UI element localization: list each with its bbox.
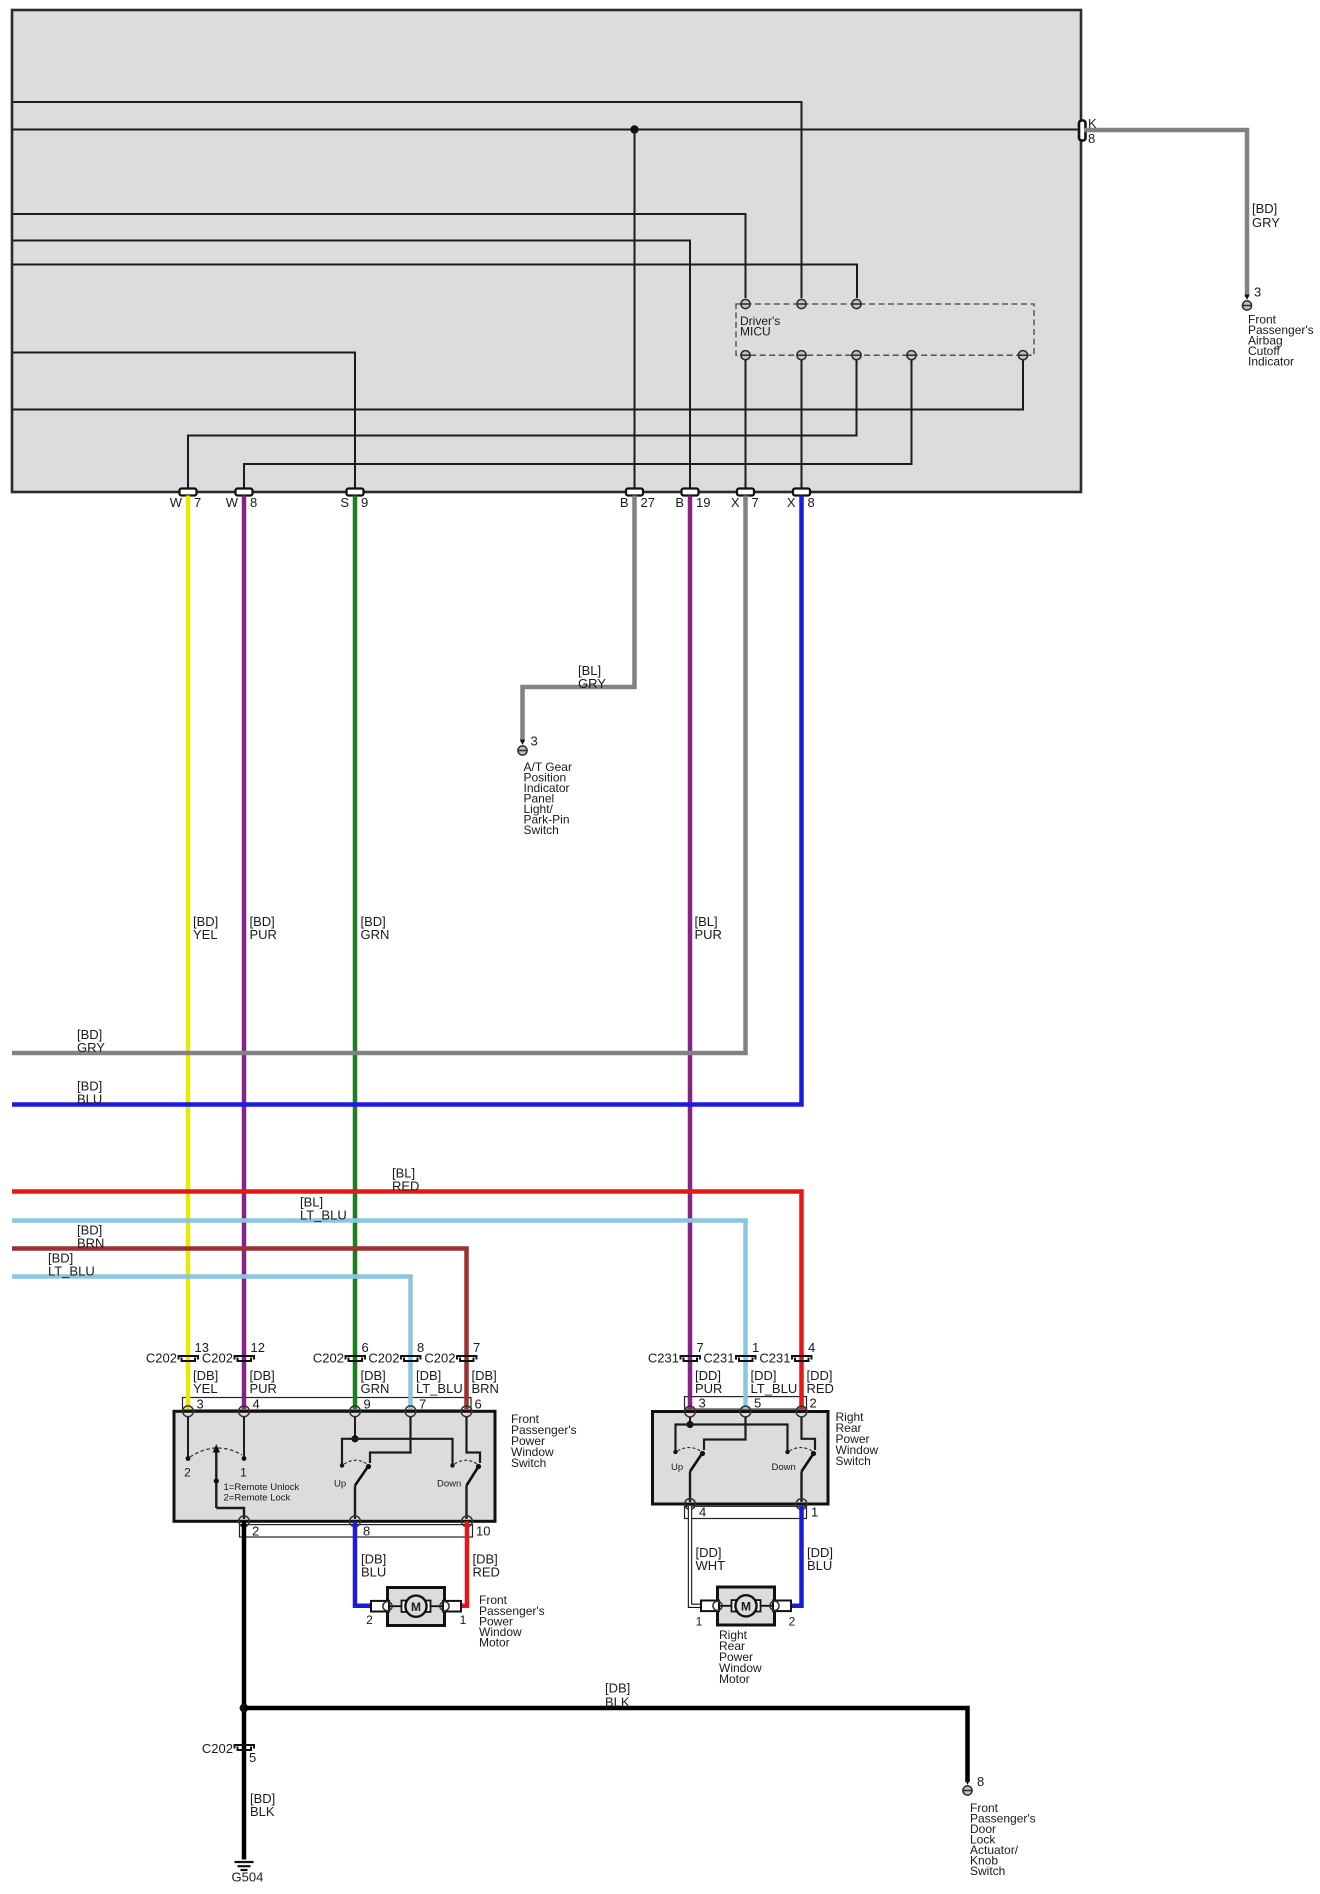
connector W7 xyxy=(180,489,197,496)
svg-text:C202: C202 xyxy=(313,1351,344,1366)
svg-text:4: 4 xyxy=(808,1340,815,1355)
FP switch top pin strip xyxy=(183,1398,472,1411)
svg-text:8: 8 xyxy=(363,1524,370,1539)
svg-text:3: 3 xyxy=(1254,285,1261,300)
RR switch bottom pins 4 1 xyxy=(685,1499,696,1510)
svg-text:C231: C231 xyxy=(648,1351,679,1366)
svg-text:5: 5 xyxy=(754,1396,761,1411)
svg-text:W: W xyxy=(170,495,183,510)
svg-text:2: 2 xyxy=(366,1613,373,1627)
connector C202 pin 5 xyxy=(235,1745,255,1750)
svg-text:9: 9 xyxy=(361,495,368,510)
terminal 8 door lock actuator xyxy=(963,1786,972,1795)
svg-text:1: 1 xyxy=(460,1613,467,1627)
svg-text:GRN: GRN xyxy=(361,927,390,942)
svg-text:X: X xyxy=(731,495,740,510)
svg-text:GRN: GRN xyxy=(361,1381,390,1396)
svg-text:10: 10 xyxy=(476,1524,490,1539)
FP remote lock arm with arrow xyxy=(215,1451,217,1508)
svg-text:1: 1 xyxy=(811,1505,818,1520)
wire [DB] RED to FP motor xyxy=(455,1521,467,1606)
svg-text:C202: C202 xyxy=(146,1351,177,1366)
connector B19 xyxy=(682,489,699,496)
svg-text:8: 8 xyxy=(1088,131,1095,146)
svg-text:GRY: GRY xyxy=(1252,215,1280,230)
svg-text:[BD]: [BD] xyxy=(1252,201,1277,216)
connector W8 xyxy=(236,489,253,496)
FP switch bottom pin strip xyxy=(240,1525,473,1537)
svg-text:PUR: PUR xyxy=(695,1381,722,1396)
svg-text:MICU: MICU xyxy=(740,325,771,339)
svg-text:4: 4 xyxy=(253,1397,260,1412)
svg-text:7: 7 xyxy=(194,495,201,510)
svg-text:WHT: WHT xyxy=(696,1558,726,1573)
FP internal bus to fixed contacts xyxy=(342,1439,453,1465)
svg-text:RED: RED xyxy=(392,1179,419,1194)
svg-text:Motor: Motor xyxy=(479,1636,510,1650)
wire bus y=352 to S9 xyxy=(13,353,355,490)
connector X7 xyxy=(737,489,754,496)
wire [BL] LT_BLU horizontal xyxy=(12,1221,746,1410)
svg-text:GRY: GRY xyxy=(77,1040,105,1055)
svg-text:Switch: Switch xyxy=(970,1864,1005,1878)
svg-text:9: 9 xyxy=(364,1397,371,1412)
svg-text:2: 2 xyxy=(810,1396,817,1411)
connector X8 xyxy=(793,489,810,496)
svg-text:B: B xyxy=(620,495,629,510)
svg-text:M: M xyxy=(741,1600,751,1614)
svg-text:1: 1 xyxy=(240,1466,247,1480)
MICU bottom terminals xyxy=(741,351,750,360)
wire MICU bottom pin 5 to bus y=409 xyxy=(13,360,1023,410)
RR switch top pins 3 5 2 xyxy=(685,1406,696,1417)
FP switch body xyxy=(174,1411,495,1521)
svg-text:BLU: BLU xyxy=(77,1092,102,1107)
RR switch top pin strip xyxy=(685,1397,807,1410)
svg-text:PUR: PUR xyxy=(250,1381,277,1396)
svg-text:LT_BLU: LT_BLU xyxy=(300,1208,347,1223)
RR internal bus to fixed contacts xyxy=(676,1425,788,1452)
svg-text:RED: RED xyxy=(473,1565,500,1580)
svg-text:BLK: BLK xyxy=(605,1695,630,1710)
svg-text:3: 3 xyxy=(699,1396,706,1411)
svg-text:Down: Down xyxy=(437,1479,461,1490)
connector C231 pin 7 xyxy=(681,1356,701,1361)
svg-text:19: 19 xyxy=(696,495,710,510)
wire [BD] BRN horizontal xyxy=(12,1249,467,1410)
driver's door multiplex control unit box xyxy=(12,10,1081,492)
svg-text:C202: C202 xyxy=(202,1351,233,1366)
wire MICU bottom pin 2 to X8 xyxy=(801,360,803,489)
wire B27 vertical xyxy=(634,130,636,490)
wire [BD] YEL xyxy=(186,496,191,1410)
svg-text:BLU: BLU xyxy=(361,1565,386,1580)
RR pin3 leg and junction dot xyxy=(689,1417,691,1425)
FP remote lock section: pin4 leg xyxy=(243,1417,245,1457)
FP Up switch arm xyxy=(355,1467,368,1486)
FP pin6 leg to Down contact xyxy=(467,1417,481,1463)
wire [BD] PUR xyxy=(242,496,247,1410)
RR switch body xyxy=(653,1412,829,1505)
ground G504 xyxy=(235,1862,254,1870)
wire MICU bottom pin 3 to W7 xyxy=(188,360,857,489)
svg-text:LT_BLU: LT_BLU xyxy=(751,1381,798,1396)
connector C202 pin 13 xyxy=(179,1356,199,1361)
svg-text:5: 5 xyxy=(249,1750,256,1765)
svg-text:C202: C202 xyxy=(368,1351,399,1366)
connector K8 at box right edge xyxy=(1079,121,1086,141)
svg-text:[DB]: [DB] xyxy=(605,1681,630,1696)
svg-text:Up: Up xyxy=(671,1462,683,1473)
svg-text:PUR: PUR xyxy=(695,927,722,942)
wire [DD] BLU to RR motor xyxy=(788,1506,802,1606)
wire [BL] PUR xyxy=(688,496,693,1410)
RR Down dashed arc xyxy=(790,1448,813,1452)
svg-text:X: X xyxy=(787,495,796,510)
svg-text:Switch: Switch xyxy=(524,823,559,837)
wire bus y=264 to MICU top pin 3 xyxy=(13,265,857,299)
FP pin7 leg to Up contact xyxy=(370,1417,411,1463)
wire [DB] BLU to FP motor xyxy=(355,1521,375,1606)
svg-text:3: 3 xyxy=(531,734,538,749)
svg-text:Down: Down xyxy=(772,1462,796,1473)
terminal 3 airbag indicator xyxy=(1242,301,1251,310)
wire bus y=214 to MICU top pin 1 xyxy=(13,214,746,298)
svg-text:7: 7 xyxy=(752,495,759,510)
wire bus y=102 to MICU top pin 2 xyxy=(13,102,802,298)
svg-text:C202: C202 xyxy=(424,1351,455,1366)
svg-text:Switch: Switch xyxy=(511,1456,546,1470)
terminal 3 A/T gear position xyxy=(518,746,527,755)
svg-text:BLU: BLU xyxy=(807,1558,832,1573)
RR Up switch arm xyxy=(690,1454,702,1472)
wire [BL] RED horizontal xyxy=(12,1192,802,1410)
svg-text:BRN: BRN xyxy=(77,1236,104,1251)
junction dot B27 branch xyxy=(630,125,638,133)
svg-text:27: 27 xyxy=(641,495,655,510)
svg-text:7: 7 xyxy=(473,1340,480,1355)
wire [BD] GRN xyxy=(353,496,358,1410)
wire [BD] BLU horizontal xyxy=(12,496,802,1105)
svg-text:2: 2 xyxy=(252,1524,259,1539)
wire [BD] GRY horizontal xyxy=(12,496,746,1054)
svg-text:C231: C231 xyxy=(703,1351,734,1366)
svg-text:2: 2 xyxy=(789,1615,796,1629)
svg-text:W: W xyxy=(226,495,239,510)
wire [BL] GRY to A/T gear position panel light xyxy=(523,496,635,743)
svg-text:C231: C231 xyxy=(759,1351,790,1366)
svg-text:8: 8 xyxy=(808,495,815,510)
svg-text:Motor: Motor xyxy=(719,1672,750,1686)
svg-text:S: S xyxy=(340,495,349,510)
junction dot ground bus xyxy=(240,1704,249,1713)
RR switch bottom pin strip xyxy=(685,1506,807,1518)
connector C231 pin 1 xyxy=(736,1356,756,1361)
svg-text:LT_BLU: LT_BLU xyxy=(416,1381,463,1396)
svg-text:BRN: BRN xyxy=(472,1381,499,1396)
connector C202 pin 6 xyxy=(346,1356,366,1361)
svg-text:4: 4 xyxy=(699,1505,706,1520)
svg-text:12: 12 xyxy=(251,1340,265,1355)
svg-text:6: 6 xyxy=(475,1397,482,1412)
FP Down dashed arc xyxy=(455,1460,478,1464)
svg-text:8: 8 xyxy=(977,1774,984,1789)
svg-text:8: 8 xyxy=(417,1340,424,1355)
connector C231 pin 4 xyxy=(792,1356,812,1361)
MICU top terminals xyxy=(741,299,750,308)
svg-text:YEL: YEL xyxy=(193,1381,218,1396)
svg-text:YEL: YEL xyxy=(193,927,218,942)
svg-text:1=Remote Unlock: 1=Remote Unlock xyxy=(224,1482,300,1493)
Driver's MICU dashed box xyxy=(736,304,1034,355)
svg-text:PUR: PUR xyxy=(250,927,277,942)
wire [DD] WHT to RR motor xyxy=(690,1506,705,1606)
wire [DB] BLK to door lock actuator xyxy=(244,1708,968,1782)
svg-text:BLK: BLK xyxy=(250,1804,275,1819)
svg-text:8: 8 xyxy=(250,495,257,510)
svg-text:1: 1 xyxy=(752,1340,759,1355)
svg-text:2: 2 xyxy=(184,1466,191,1480)
svg-text:3: 3 xyxy=(197,1397,204,1412)
FP switch bottom pins 2 8 10 xyxy=(239,1516,250,1527)
connector C202 pin 12 xyxy=(235,1356,255,1361)
RR Up dashed arc xyxy=(678,1448,701,1452)
svg-text:Switch: Switch xyxy=(836,1454,871,1468)
connector C202 pin 8 xyxy=(401,1356,421,1361)
svg-text:GRY: GRY xyxy=(578,676,606,691)
FP window motor M1 xyxy=(389,1605,443,1607)
svg-text:B: B xyxy=(675,495,684,510)
RR pin5 leg to Up contact xyxy=(704,1417,746,1450)
RR window motor M2 xyxy=(719,1605,773,1607)
svg-text:RED: RED xyxy=(807,1381,834,1396)
FP up/down: pin9 leg and junction xyxy=(354,1417,356,1439)
wire MICU bottom pin 1 to X7 xyxy=(745,360,747,489)
wire bus y=129 to connector K8 xyxy=(13,129,1078,131)
svg-text:LT_BLU: LT_BLU xyxy=(48,1264,95,1279)
connector B27 xyxy=(626,489,643,496)
wire [BD] GRY to airbag cutoff indicator xyxy=(1084,130,1247,297)
svg-text:2=Remote Lock: 2=Remote Lock xyxy=(224,1493,291,1504)
FP remote lock dashed arc xyxy=(190,1448,242,1457)
svg-text:Indicator: Indicator xyxy=(1248,355,1294,369)
RR Down switch arm xyxy=(802,1454,814,1472)
RR pin2 leg to Down contact xyxy=(802,1417,816,1450)
FP Up dashed arc xyxy=(344,1460,367,1464)
connector S9 xyxy=(347,489,364,496)
FP switch top pins 3 4 9 7 6 xyxy=(183,1406,194,1417)
svg-text:7: 7 xyxy=(419,1397,426,1412)
wire [BD] BLK from FP switch pin 2 xyxy=(242,1521,247,1859)
svg-text:M: M xyxy=(411,1600,421,1614)
FP Down switch arm xyxy=(467,1467,479,1486)
wire MICU bottom pin 4 to W8 xyxy=(244,360,912,489)
svg-text:1: 1 xyxy=(696,1615,703,1629)
wire bus y=240 to B19 xyxy=(13,241,690,490)
FP remote lock section: pin3 leg xyxy=(187,1417,189,1457)
svg-text:Up: Up xyxy=(334,1479,346,1490)
connector C202 pin 7 xyxy=(457,1356,477,1361)
svg-text:C202: C202 xyxy=(202,1741,233,1756)
wire [BD] LT_BLU horizontal xyxy=(12,1277,411,1410)
svg-text:G504: G504 xyxy=(232,1870,264,1885)
